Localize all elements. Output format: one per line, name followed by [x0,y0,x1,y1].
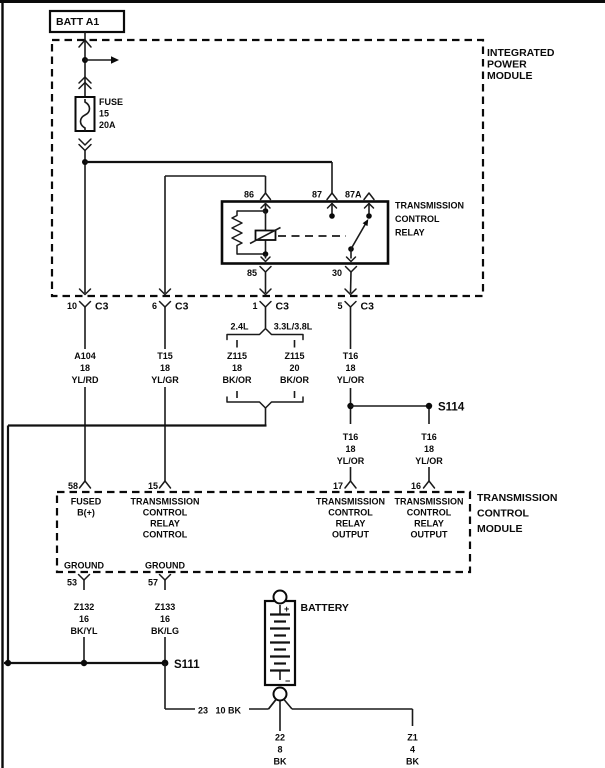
svg-text:GROUND: GROUND [145,561,185,571]
wire stub right branch lower [294,391,296,398]
svg-text:20: 20 [289,363,299,373]
transmission control module dashed box [57,492,470,572]
connector C3 pin 6 [152,289,189,349]
TCM pin 58 [68,481,91,491]
splice S114 [347,402,465,414]
wire stub below S114 left [350,409,352,424]
svg-text:6: 6 [152,301,157,311]
ground wire to left bus [8,408,267,663]
svg-text:23 10 BK: 23 10 BK [198,706,242,716]
svg-text:T16: T16 [421,432,437,442]
TCM pin 15 [148,481,171,491]
svg-text:BK/OR: BK/OR [280,375,310,385]
connector C3 pin 5 [337,289,374,349]
svg-text:20A: 20A [99,120,116,130]
svg-text:CONTROL: CONTROL [328,508,373,518]
relay pin 85 [247,254,271,293]
svg-text:CONTROL: CONTROL [407,508,452,518]
svg-text:10: 10 [67,301,77,311]
svg-text:RELAY: RELAY [414,519,444,529]
wire stub below S114 right [428,409,430,424]
splice brace top [227,329,303,340]
svg-text:C3: C3 [361,301,375,313]
svg-text:T15: T15 [157,351,173,361]
svg-text:YL/RD: YL/RD [72,375,100,385]
frame left border [1,0,3,768]
wire stub left branch [236,340,238,348]
wire label T16 18 YL/OR lower left [337,432,365,481]
wire relay pin 86 to C3 pin 6 [165,176,266,293]
TCM pin 58 label FUSED B(+) [71,497,102,518]
svg-text:Z1: Z1 [407,733,418,743]
svg-text:Z115: Z115 [227,351,247,361]
wire label Z115 20 BK/OR [280,351,310,385]
svg-text:TRANSMISSION: TRANSMISSION [316,497,385,507]
svg-text:85: 85 [247,268,257,278]
transmission control relay box [222,202,388,264]
svg-text:YL/GR: YL/GR [151,375,179,385]
svg-text:POWER: POWER [487,59,527,71]
svg-text:OUTPUT: OUTPUT [332,530,370,540]
connector C3 pin 10 [67,289,109,349]
wire label Z132 16 BK/YL [71,602,99,663]
svg-text:3.3L/3.8L: 3.3L/3.8L [274,322,313,332]
wire BATT A1 to fuse [79,32,91,97]
wire fuse to C3 pin 10 [84,150,86,293]
wire label Z1 4 BK [406,733,419,767]
svg-text:−: − [285,676,290,686]
svg-text:30: 30 [332,268,342,278]
wire label T15 18 YL/GR [151,351,179,481]
svg-text:53: 53 [67,578,77,588]
connector C3 pin 1 [252,289,289,328]
battery [265,591,295,701]
svg-text:CONTROL: CONTROL [143,508,188,518]
svg-text:1: 1 [252,301,257,311]
svg-text:BK: BK [274,757,287,767]
integrated power module dashed box [52,40,483,296]
svg-text:Z133: Z133 [155,602,176,612]
svg-text:C3: C3 [276,301,290,313]
svg-text:CONTROL: CONTROL [143,530,188,540]
resistor in relay [232,211,266,254]
wire label Z115 18 BK/OR [223,351,253,385]
battery negative fan [269,700,413,732]
svg-text:BK: BK [406,757,419,767]
svg-text:57: 57 [148,578,158,588]
svg-text:BATTERY: BATTERY [301,602,349,614]
svg-text:8: 8 [277,745,282,755]
svg-text:A104: A104 [74,351,96,361]
svg-text:Z115: Z115 [284,351,304,361]
relay pin 30 [332,249,357,293]
svg-text:15: 15 [148,481,158,491]
svg-text:YL/OR: YL/OR [415,456,443,466]
svg-text:58: 58 [68,481,78,491]
splice brace bottom [227,397,303,408]
wire stub left branch lower [236,391,238,398]
svg-text:2.4L: 2.4L [230,322,249,332]
svg-text:5: 5 [337,301,342,311]
wire S111 to battery [165,663,276,716]
svg-text:BK/OR: BK/OR [223,375,253,385]
relay pin 87A [345,190,374,219]
wire label 22 8 BK [274,733,287,767]
svg-text:B(+): B(+) [77,508,95,518]
svg-text:RELAY: RELAY [150,519,180,529]
svg-text:18: 18 [80,363,90,373]
wire label Z133 16 BK/LG [151,602,179,663]
wire fuse node to relay pin 87 [85,162,332,193]
frame top border [0,0,605,3]
branch arrow to other circuits [85,56,119,64]
TCM pin 17 label [316,497,385,540]
node junction below BATT A1 [82,57,88,63]
svg-text:87: 87 [312,190,322,200]
svg-text:16: 16 [160,614,170,624]
svg-text:TRANSMISSION: TRANSMISSION [395,201,464,211]
svg-text:BK/LG: BK/LG [151,626,179,636]
TCM pin 53 [67,575,90,591]
svg-text:FUSE: FUSE [99,97,123,107]
svg-text:GROUND: GROUND [64,561,104,571]
relay switch [348,219,368,252]
relay pin 86 [244,190,271,212]
svg-text:16: 16 [411,481,421,491]
svg-text:17: 17 [333,481,343,491]
svg-text:18: 18 [160,363,170,373]
mechanical linkage dashed line [278,235,346,237]
relay coil node bottom [263,251,269,257]
svg-text:OUTPUT: OUTPUT [411,530,449,540]
svg-text:16: 16 [79,614,89,624]
svg-text:BK/YL: BK/YL [71,626,99,636]
svg-text:TRANSMISSION: TRANSMISSION [130,497,199,507]
svg-text:18: 18 [232,363,242,373]
TCM pin 57 [148,575,171,591]
relay coil symbol [250,228,281,244]
svg-text:18: 18 [424,444,434,454]
in-line connector chevrons above fuse [79,77,91,89]
svg-text:C3: C3 [95,301,109,313]
splice S111 bus [4,659,200,671]
svg-text:T16: T16 [343,351,359,361]
relay pin 87 [312,190,337,219]
relay coil wire [265,211,267,254]
fuse 15 20A [76,97,95,131]
svg-text:C3: C3 [175,301,189,313]
svg-text:CONTROL: CONTROL [477,508,529,520]
TCM pin 16 [411,481,435,491]
transmission control relay label [395,201,464,238]
svg-text:INTEGRATED: INTEGRATED [487,47,555,59]
svg-text:S114: S114 [438,402,465,414]
node junction below fuse [82,159,88,165]
TCM pin 16 label [394,497,463,540]
transmission control module label [477,492,558,535]
svg-text:CONTROL: CONTROL [395,214,440,224]
svg-text:Z132: Z132 [74,602,95,612]
TCM pin 17 [333,481,356,491]
svg-text:86: 86 [244,190,254,200]
svg-text:RELAY: RELAY [395,228,425,238]
wire label T16 18 YL/OR upper [337,351,365,403]
svg-text:87A: 87A [345,190,362,200]
svg-text:18: 18 [345,363,355,373]
svg-text:15: 15 [99,109,109,119]
svg-text:MODULE: MODULE [477,523,523,535]
svg-text:MODULE: MODULE [487,70,533,82]
svg-text:4: 4 [410,745,415,755]
svg-text:YL/OR: YL/OR [337,375,365,385]
svg-text:TRANSMISSION: TRANSMISSION [394,497,463,507]
in-line connector chevrons below fuse [79,139,91,151]
svg-text:22: 22 [275,733,285,743]
svg-text:TRANSMISSION: TRANSMISSION [477,492,558,504]
svg-text:BATT A1: BATT A1 [56,16,99,28]
svg-text:YL/OR: YL/OR [337,456,365,466]
wire label A104 18 YL/RD [72,351,100,481]
svg-text:18: 18 [345,444,355,454]
battery feed box BATT A1 [50,11,124,32]
wire label T16 18 YL/OR lower right [415,432,443,481]
svg-text:FUSED: FUSED [71,497,102,507]
svg-text:RELAY: RELAY [336,519,366,529]
wire stub right branch [294,340,296,348]
integrated power module label [487,47,555,82]
svg-text:T16: T16 [343,432,359,442]
svg-text:+: + [284,604,289,614]
relay coil node top [263,208,269,214]
fuse label [99,97,123,130]
TCM pin 15 label [130,497,199,540]
svg-text:S111: S111 [174,659,200,671]
